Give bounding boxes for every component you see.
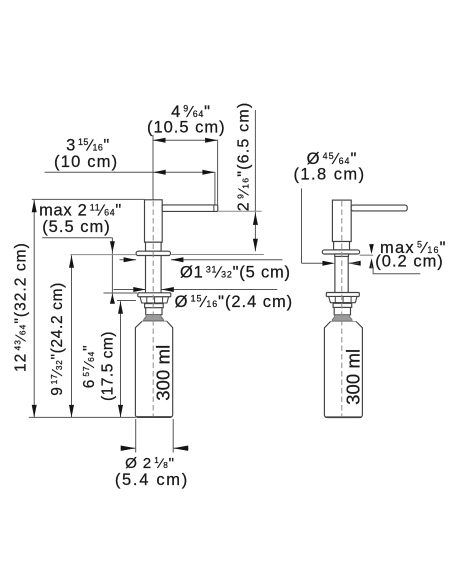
svg-text:(0.2 cm): (0.2 cm) — [375, 253, 444, 271]
svg-text:(10.5 cm): (10.5 cm) — [147, 119, 226, 137]
extension bottle bottom left — [135, 419, 137, 453]
svg-text:657⁄64": 657⁄64" — [81, 344, 98, 388]
left spout arm end cap line — [213, 205, 215, 211]
dim 17.5cm down arrow — [118, 405, 123, 418]
right bottle shoulder line — [331, 321, 357, 323]
reference arm underside right — [218, 210, 262, 212]
dim dia1.8 leader horizontal — [302, 262, 326, 264]
left pump neck — [146, 242, 162, 251]
dim 32.2cm vertical line — [33, 200, 35, 418]
dim 6.5cm up arrow — [253, 212, 258, 225]
dim dia2.4 line left — [114, 289, 146, 291]
svg-text:Ø131⁄32"(5 cm): Ø131⁄32"(5 cm) — [180, 264, 291, 282]
extension spout end outer — [217, 140, 219, 206]
svg-text:(5.4 cm): (5.4 cm) — [115, 471, 189, 489]
dim dia5cm left-pointing arrow — [171, 257, 184, 262]
left mounting flange — [136, 251, 170, 255]
svg-text:917⁄32"(24.2 cm): 917⁄32"(24.2 cm) — [49, 282, 66, 396]
dim dia5.4 line right — [173, 447, 188, 449]
dim dia5cm line right — [171, 259, 283, 261]
dim dia2.4 line right — [161, 289, 277, 291]
dim 10.5cm right arrow — [205, 138, 218, 143]
dim 24.2cm up arrow — [69, 255, 74, 268]
svg-text:315⁄16": 315⁄16" — [66, 137, 110, 155]
left tip collar — [145, 304, 164, 308]
right threaded tip — [334, 303, 350, 315]
right mounting flange — [322, 250, 359, 254]
left locknut hex — [140, 297, 169, 303]
svg-text:1243⁄64"(32.2 cm): 1243⁄64"(32.2 cm) — [13, 242, 30, 372]
left pump head — [145, 200, 163, 242]
right locknut hex — [329, 297, 357, 303]
dim 10cm right arrow — [202, 170, 215, 175]
right dispenser centerline — [341, 201, 343, 417]
right bottle neck shade — [332, 315, 352, 321]
reference nut top left — [104, 292, 138, 294]
left locknut plate — [138, 293, 171, 297]
svg-text:300 ml: 300 ml — [342, 349, 363, 405]
extension spout end inner — [214, 172, 216, 205]
right bottle bottom edge — [326, 416, 362, 418]
left shank right wall — [160, 256, 162, 293]
dim 10cm line — [45, 171, 215, 173]
left locknut hex facets — [146, 297, 148, 303]
dim 10.5cm line — [153, 139, 218, 141]
svg-text:300 ml: 300 ml — [152, 345, 173, 401]
right locknut plate — [326, 293, 359, 297]
reference nut bottom — [117, 300, 136, 302]
extension centerline above head — [152, 135, 154, 200]
dim dia1.8 left-pointing arrow — [348, 261, 361, 266]
dim dia1.8 leader vertical — [301, 188, 303, 263]
dim 32.2cm down arrow — [32, 405, 37, 418]
dim 32.2cm up arrow — [32, 200, 37, 213]
svg-text:(1.8 cm): (1.8 cm) — [293, 165, 365, 183]
left dispenser centerline — [152, 201, 154, 417]
reference counter left — [70, 254, 136, 256]
svg-text:Ø 21⁄8": Ø 21⁄8" — [125, 455, 175, 472]
right locknut hex facets — [334, 297, 336, 303]
dim 17.5cm up arrow — [118, 301, 123, 314]
right pump head — [332, 200, 351, 241]
right flange lip — [335, 254, 349, 256]
dim max5.5 upper down arrow — [110, 241, 115, 252]
dim dia2.4 left-pointing arrow — [161, 287, 174, 292]
dim max5.5 leader horizontal — [42, 237, 112, 239]
dim dia5cm right-pointing arrow — [124, 257, 137, 262]
right shank right wall — [347, 256, 349, 292]
dim max5.5 lower up arrow — [110, 294, 115, 304]
dim dia5.4 right-pointing arrow — [121, 446, 136, 451]
left bottle bottom edge — [137, 416, 172, 418]
right spout arm — [351, 205, 407, 211]
left shank left wall — [145, 256, 147, 293]
dim max0.2 up arrow stem — [371, 265, 373, 268]
dim max0.2 leader — [373, 267, 420, 274]
dim 6.5cm down arrow — [253, 239, 258, 252]
dim max5.5 leader vertical — [111, 238, 113, 302]
svg-text:29⁄16"(6.5 cm): 29⁄16"(6.5 cm) — [235, 102, 252, 212]
reference bottle bottom left — [29, 416, 136, 418]
dim dia1.8 right-pointing arrow — [322, 261, 335, 266]
dim dia5cm line left — [120, 259, 137, 261]
dim 10.5cm left arrow — [153, 138, 166, 143]
dim 6.5cm vertical line — [254, 110, 256, 251]
dim dia5.4 line left — [121, 447, 136, 449]
reference head top left — [32, 198, 145, 200]
dim dia5.4 left-pointing arrow — [173, 446, 188, 451]
right shank left wall — [334, 256, 336, 292]
dim dia2.4 right-pointing arrow — [133, 287, 146, 292]
extension bottle bottom right — [172, 419, 174, 453]
svg-text:(17.5 cm): (17.5 cm) — [100, 331, 117, 401]
dim 10cm left arrow — [153, 170, 166, 175]
left bottle shoulder line — [142, 320, 167, 322]
svg-text:(10 cm): (10 cm) — [54, 153, 118, 171]
svg-text:Ø15⁄16"(2.4 cm): Ø15⁄16"(2.4 cm) — [175, 293, 293, 311]
left bottle neck shade — [144, 315, 164, 321]
svg-text:(5.5 cm): (5.5 cm) — [42, 218, 111, 236]
right bottle body — [324, 322, 362, 418]
dim max0.2 down arrow — [369, 244, 374, 254]
dim 17.5cm vertical line — [120, 301, 122, 417]
reference counter right of flange — [171, 254, 264, 256]
left spout arm — [162, 205, 218, 212]
left bottle body — [135, 321, 172, 417]
dim 24.2cm vertical line — [71, 255, 73, 417]
right pump neck — [334, 242, 350, 250]
left threaded tip — [146, 303, 162, 315]
dim dia1.8 right tail — [348, 262, 359, 264]
reference counter right view — [360, 254, 374, 256]
dim 24.2cm down arrow — [69, 405, 74, 418]
right tip collar — [333, 303, 352, 307]
dim max0.2 up arrow — [369, 258, 374, 268]
